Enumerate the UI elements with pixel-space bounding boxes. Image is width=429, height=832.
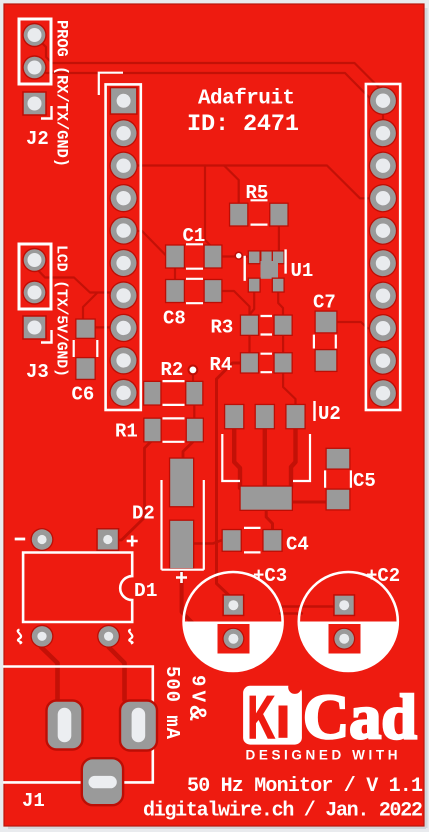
- wire: [251, 290, 255, 318]
- bridge D1 ac mark left: [18, 630, 22, 644]
- connector J3 pin3 bracket: [41, 330, 52, 343]
- power jack J1 pad bottom: [82, 758, 123, 805]
- svg-text:C7: C7: [313, 292, 336, 314]
- KiCad logo badge: [243, 686, 302, 745]
- bridge D1 ac mark right: [129, 630, 133, 644]
- wire: [282, 334, 284, 354]
- wire: [234, 427, 240, 488]
- wire: [266, 509, 272, 531]
- wire: [283, 372, 295, 406]
- op-amp U1 silk lines: [245, 249, 286, 281]
- svg-text:R2: R2: [161, 359, 184, 381]
- capacitor C1 pads: [165, 244, 185, 268]
- wire: [34, 68, 383, 133]
- capacitor C7 silk: [314, 335, 336, 349]
- left header pin1 corner bracket: [99, 73, 123, 95]
- wire: [124, 231, 167, 257]
- svg-text:D2: D2: [132, 503, 155, 525]
- left header pin9: [109, 346, 137, 374]
- wire: [94, 326, 112, 328]
- left header pin4: [109, 184, 137, 212]
- svg-text:U2: U2: [318, 403, 341, 425]
- capacitor C2 circle: [299, 572, 398, 671]
- wire: [224, 166, 239, 207]
- right header pin6: [369, 249, 397, 277]
- capacitor C2 lower fill: [299, 622, 398, 672]
- left header pin3: [109, 152, 137, 180]
- diode D2 pads: [169, 457, 194, 507]
- resistor R5 silk: [251, 200, 268, 224]
- left header pin10: [109, 379, 137, 407]
- capacitor C1 silk: [186, 244, 203, 268]
- svg-text:50 Hz Monitor / V 1.1: 50 Hz Monitor / V 1.1: [187, 775, 423, 798]
- board shadow: [424, 8, 428, 828]
- wire: [291, 427, 296, 488]
- wire: [41, 647, 58, 700]
- regulator U2 pads: [224, 404, 245, 430]
- bridge rectifier D1 outline: [23, 553, 132, 623]
- bridge D1 pad1: [31, 528, 54, 551]
- regulator U2 label tick: [313, 401, 315, 421]
- svg-text:Adafruit: Adafruit: [198, 88, 295, 111]
- svg-text:C6: C6: [72, 384, 95, 406]
- capacitor C3 circle: [184, 572, 283, 671]
- capacitor C8 pads: [165, 279, 185, 303]
- resistor R1 silk: [163, 418, 185, 441]
- regulator U2 outline: [222, 434, 310, 481]
- right header pin2: [369, 119, 397, 147]
- svg-text:R4: R4: [210, 354, 233, 376]
- svg-text:J3: J3: [26, 361, 49, 383]
- svg-text:+C3: +C3: [253, 565, 287, 587]
- svg-text:DESIGNED WITH: DESIGNED WITH: [246, 747, 402, 762]
- connector J3 outline: [19, 244, 51, 309]
- resistor R5 pads: [229, 203, 249, 227]
- svg-text:ID: 2471: ID: 2471: [187, 111, 299, 138]
- connector J3 pin3: [22, 315, 47, 340]
- resistor R3 silk: [261, 316, 273, 335]
- capacitor C3 pad clearance: [218, 624, 250, 654]
- connector J3 pin2: [22, 280, 46, 304]
- wire: [174, 264, 176, 284]
- svg-text:J1: J1: [22, 790, 45, 812]
- wire: [192, 373, 194, 383]
- diode D2 plus mark: [176, 572, 187, 583]
- wire: [205, 166, 214, 255]
- svg-text:C4: C4: [286, 534, 309, 556]
- wire: [130, 166, 374, 199]
- power jack J1 outline: [3, 667, 153, 783]
- bridge D1 pad4: [97, 625, 120, 648]
- connector J2 pin2: [22, 55, 46, 79]
- wire: [291, 501, 330, 504]
- left header pin5: [109, 216, 137, 244]
- resistor R2 pads: [143, 381, 162, 406]
- svg-text:500 mA: 500 mA: [161, 666, 183, 740]
- svg-text:U1: U1: [291, 260, 314, 282]
- wire: [278, 290, 283, 318]
- resistor R3 pads: [240, 314, 259, 336]
- wire: [248, 334, 250, 354]
- svg-text:C1: C1: [183, 225, 206, 247]
- wire: [217, 363, 249, 600]
- capacitor C3 bottom pad: [222, 628, 244, 650]
- svg-text:R1: R1: [115, 421, 138, 443]
- right header pin9: [369, 347, 397, 375]
- wire: [337, 322, 374, 328]
- wire: [194, 540, 224, 543]
- left header pin8: [109, 314, 137, 342]
- capacitor C8 silk: [186, 279, 203, 303]
- wire: [278, 224, 280, 253]
- right header pin8: [369, 314, 397, 342]
- connector J3 pin1: [22, 248, 46, 272]
- svg-text:J2: J2: [26, 128, 49, 150]
- svg-text:C5: C5: [353, 470, 376, 492]
- svg-text:R3: R3: [211, 317, 234, 339]
- capacitor C7 pads: [314, 310, 337, 333]
- wire: [110, 440, 153, 540]
- connector J2 outline: [19, 19, 51, 84]
- svg-text:+C2: +C2: [366, 565, 400, 587]
- right header pin3: [369, 152, 397, 180]
- capacitor C3 top pad: [222, 594, 244, 616]
- left header outline: [106, 84, 141, 410]
- via near R2: [188, 365, 199, 376]
- bridge D1 minus mark: [15, 538, 26, 541]
- left header pin1: [110, 87, 138, 115]
- left header pin7: [109, 281, 137, 309]
- resistor R1 pads: [143, 418, 162, 443]
- op-amp U1 pads: [248, 250, 261, 264]
- resistor R4 pads: [240, 352, 259, 374]
- capacitor C2 top pad: [333, 594, 355, 616]
- capacitor C4 pads: [222, 529, 242, 552]
- bridge D1 pad2: [96, 528, 119, 551]
- regulator U2 tab pad: [239, 485, 293, 511]
- wire: [221, 291, 250, 317]
- svg-text:C8: C8: [163, 308, 186, 330]
- connector J2 pin3 bracket: [41, 106, 52, 119]
- power jack J1 pad right: [120, 701, 157, 751]
- right header pin7: [369, 282, 397, 310]
- wire: [36, 268, 112, 293]
- connector J2 pin3: [22, 91, 47, 116]
- capacitor C3 lower fill: [184, 622, 283, 672]
- power jack J1 pad left: [47, 701, 83, 750]
- capacitor C6 pads: [75, 318, 96, 339]
- wire: [182, 567, 224, 639]
- svg-text:PROG (RX/TX/GND): PROG (RX/TX/GND): [53, 20, 71, 167]
- capacitor C2 bottom pad: [333, 628, 355, 650]
- svg-text:&: &: [182, 706, 211, 721]
- svg-text:R5: R5: [246, 182, 269, 204]
- svg-text:K: K: [248, 684, 275, 751]
- wire: [263, 427, 267, 488]
- resistor R4 silk: [261, 354, 273, 373]
- connector J2 pin1: [22, 23, 46, 47]
- wire: [183, 440, 195, 459]
- capacitor C4 silk: [244, 528, 261, 553]
- resistor R2 silk: [163, 381, 185, 405]
- KiCad logo i dot: [288, 681, 301, 694]
- svg-text:Cad: Cad: [303, 681, 417, 752]
- via near U1: [235, 252, 243, 260]
- right header pin1: [369, 87, 397, 115]
- svg-text:LCD (TX/5V/GND): LCD (TX/5V/GND): [53, 245, 70, 377]
- wire: [280, 612, 302, 614]
- wire: [83, 293, 97, 319]
- right header pin5: [369, 217, 397, 245]
- right header pin10: [369, 379, 397, 407]
- bridge D1 pad3: [31, 625, 54, 648]
- right header outline: [366, 84, 400, 410]
- wire: [280, 605, 346, 607]
- capacitor C6 silk: [74, 340, 98, 357]
- left header pin6: [109, 249, 137, 277]
- capacitor C5 pads: [325, 448, 350, 470]
- svg-text:D1: D1: [134, 580, 157, 602]
- diode D2 outline: [162, 480, 204, 570]
- wire: [193, 403, 195, 420]
- bridge D1 plus mark: [127, 536, 138, 547]
- wire: [34, 35, 383, 100]
- left header pin2: [109, 119, 137, 147]
- capacitor C5 silk: [325, 470, 351, 487]
- wire: [221, 255, 250, 257]
- wire: [109, 647, 125, 700]
- svg-text:digitalwire.ch / Jan. 2022: digitalwire.ch / Jan. 2022: [143, 800, 423, 823]
- right header pin4: [369, 184, 397, 212]
- capacitor C2 pad clearance: [329, 624, 361, 654]
